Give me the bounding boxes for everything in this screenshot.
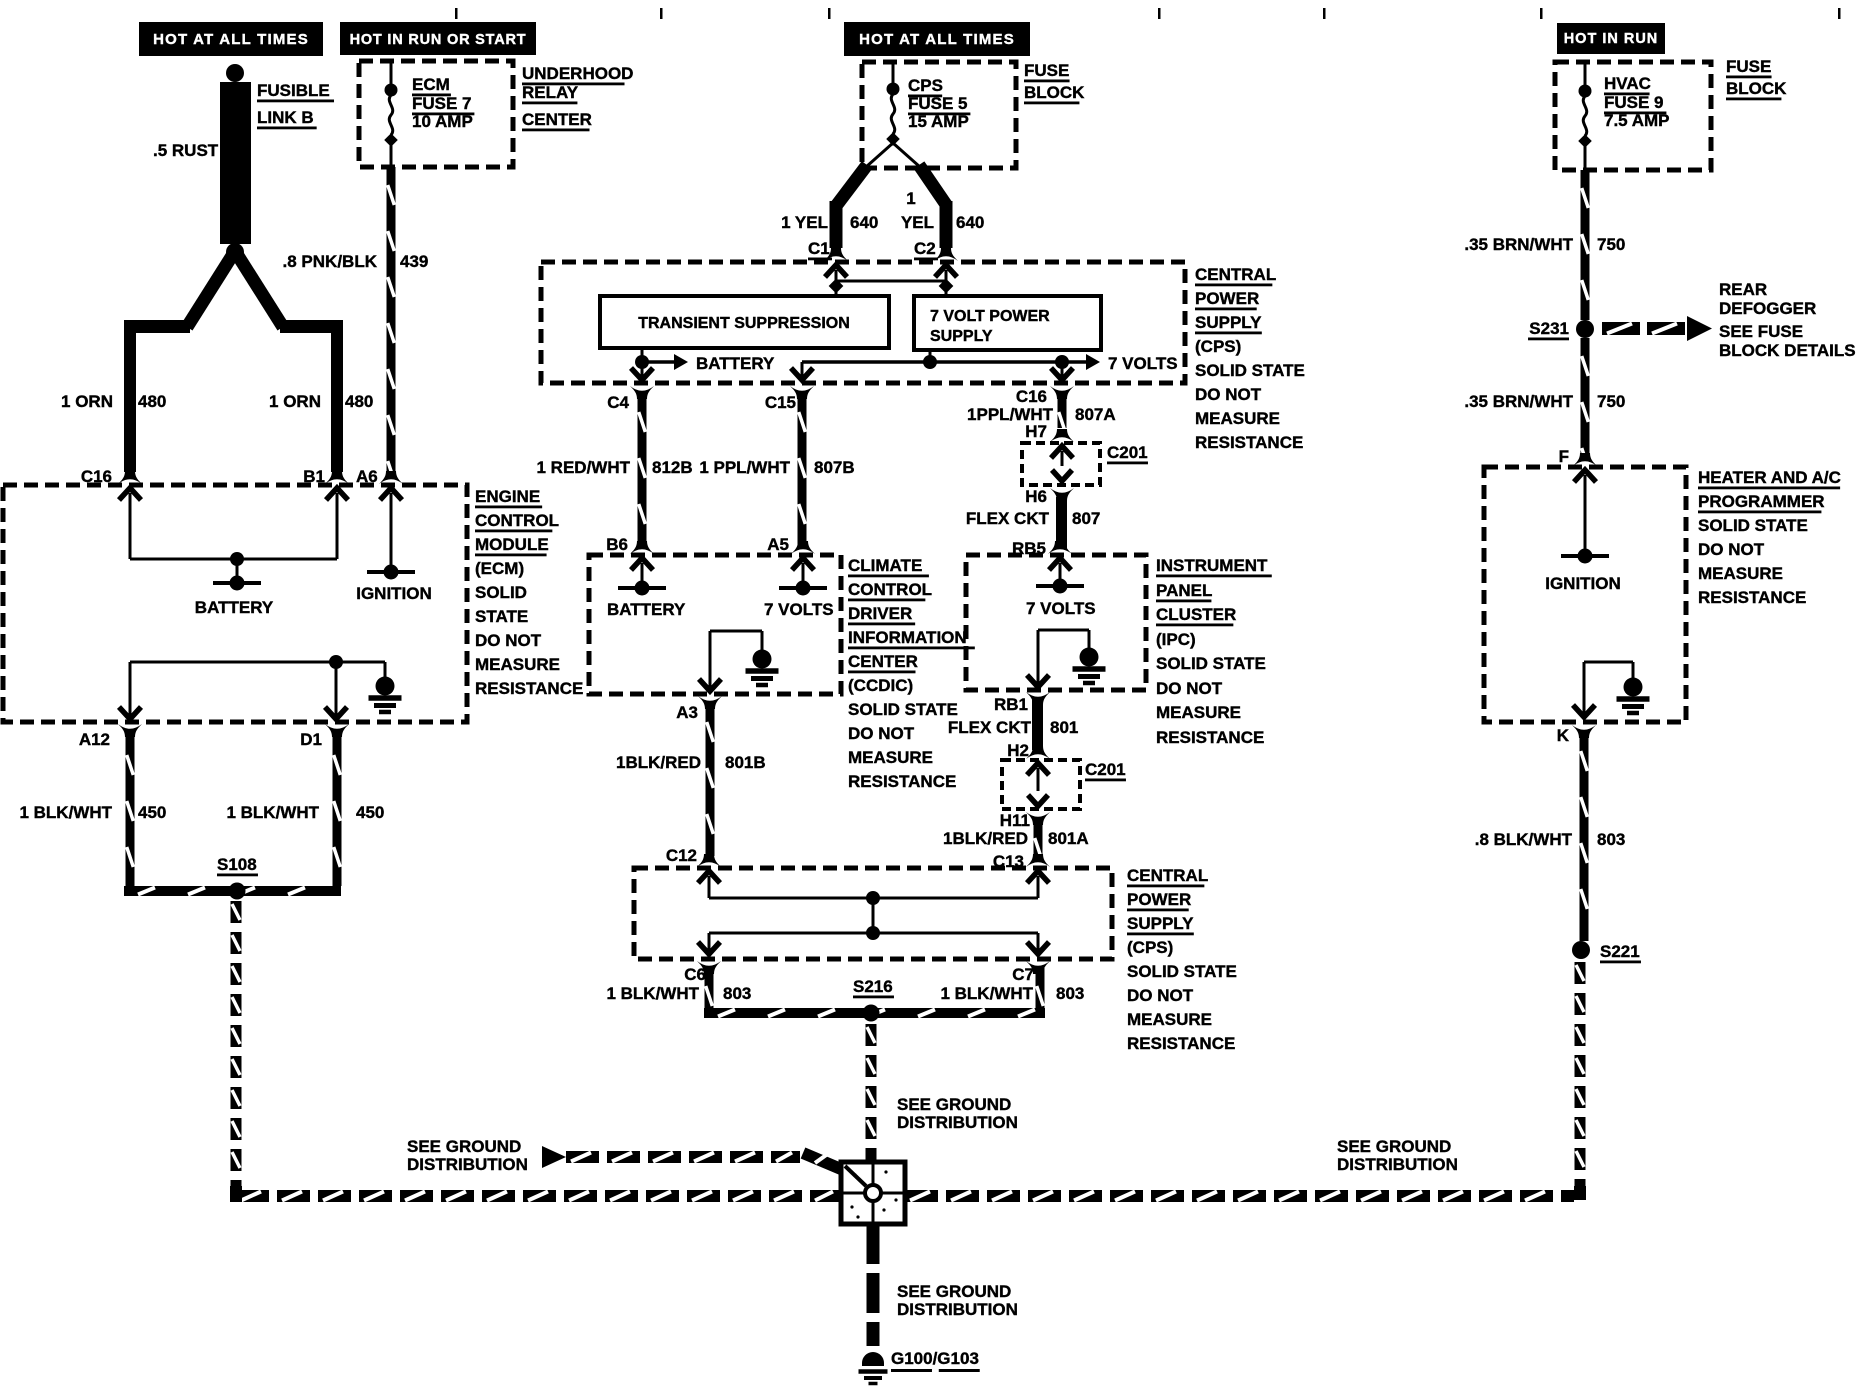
svg-text:FUSIBLE: FUSIBLE <box>257 81 330 100</box>
svg-text:YEL: YEL <box>901 213 934 232</box>
svg-text:SOLID STATE: SOLID STATE <box>1195 361 1305 380</box>
svg-text:IGNITION: IGNITION <box>1545 574 1621 593</box>
svg-text:RESISTANCE: RESISTANCE <box>848 772 956 791</box>
svg-text:803: 803 <box>1597 830 1625 849</box>
svg-text:SEE GROUND: SEE GROUND <box>897 1095 1011 1114</box>
svg-text:DRIVER: DRIVER <box>848 604 912 623</box>
svg-text:450: 450 <box>356 803 384 822</box>
svg-text:S221: S221 <box>1600 942 1640 961</box>
dashed ground wire below S216 <box>866 1024 877 1046</box>
svg-text:1BLK/RED: 1BLK/RED <box>943 829 1028 848</box>
RB5 bell <box>1048 541 1072 554</box>
svg-text:RB1: RB1 <box>994 695 1028 714</box>
svg-text:807: 807 <box>1072 509 1100 528</box>
C12 C13 bells <box>697 854 721 867</box>
svg-text:SUPPLY: SUPPLY <box>930 328 993 345</box>
svg-text:807A: 807A <box>1075 405 1116 424</box>
svg-text:1 ORN: 1 ORN <box>61 392 113 411</box>
ECM box (engine control module) <box>3 485 467 722</box>
svg-text:SEE FUSE: SEE FUSE <box>1719 322 1803 341</box>
svg-text:FUSE: FUSE <box>1024 61 1069 80</box>
dashed ground wire below S221 <box>1575 962 1586 984</box>
instrument panel cluster box <box>966 555 1146 690</box>
svg-text:RESISTANCE: RESISTANCE <box>475 679 583 698</box>
svg-text:CLIMATE: CLIMATE <box>848 556 922 575</box>
svg-text:INSTRUMENT: INSTRUMENT <box>1156 556 1268 575</box>
svg-text:DO NOT: DO NOT <box>848 724 915 743</box>
svg-text:FUSE 7: FUSE 7 <box>412 94 472 113</box>
svg-text:C2: C2 <box>914 239 936 258</box>
svg-text:439: 439 <box>400 252 428 271</box>
svg-text:K: K <box>1557 726 1570 745</box>
svg-text:1BLK/RED: 1BLK/RED <box>616 753 701 772</box>
svg-text:480: 480 <box>138 392 166 411</box>
svg-text:SOLID STATE: SOLID STATE <box>1127 962 1237 981</box>
svg-text:C201: C201 <box>1107 443 1148 462</box>
wire: fusible link V branches (1 ORN 480 left / right) <box>187 251 235 327</box>
svg-text:1 PPL/WHT: 1 PPL/WHT <box>699 458 790 477</box>
svg-text:B6: B6 <box>606 535 628 554</box>
svg-text:BATTERY: BATTERY <box>195 598 274 617</box>
label HOT AT ALL TIMES (left) <box>139 22 323 56</box>
svg-text:LINK B: LINK B <box>257 108 314 127</box>
ECM internal ground bus <box>130 661 336 664</box>
F pin <box>1573 453 1597 466</box>
7 volts bus inside CPS <box>929 350 932 362</box>
CCDIC internal ground <box>710 630 762 633</box>
svg-text:RESISTANCE: RESISTANCE <box>1195 433 1303 452</box>
svg-text:15 AMP: 15 AMP <box>908 112 969 131</box>
wire 1 PPL/WHT 807B <box>798 394 807 545</box>
svg-text:SOLID: SOLID <box>475 583 527 602</box>
svg-text:BATTERY: BATTERY <box>607 600 686 619</box>
wire .8 PNK/BLK 439 <box>387 167 396 474</box>
svg-text:750: 750 <box>1597 392 1625 411</box>
svg-text:(IPC): (IPC) <box>1156 630 1196 649</box>
svg-text:801A: 801A <box>1048 829 1089 848</box>
svg-text:7 VOLTS: 7 VOLTS <box>764 600 834 619</box>
svg-text:POWER: POWER <box>1127 890 1191 909</box>
wire FLEX CKT 801 <box>1032 700 1043 750</box>
svg-text:DO NOT: DO NOT <box>1195 385 1262 404</box>
A12 / D1 connector bells <box>118 724 142 737</box>
dashed ground wire below S108 <box>231 901 242 923</box>
wire .35 BRN/WHT 750 (lower) <box>1581 338 1590 457</box>
svg-text:TRANSIENT SUPPRESSION: TRANSIENT SUPPRESSION <box>638 315 850 332</box>
svg-text:750: 750 <box>1597 235 1625 254</box>
svg-text:812B: 812B <box>652 458 693 477</box>
lower horizontal dashed run (right of box) <box>905 1190 938 1202</box>
svg-text:DO NOT: DO NOT <box>1156 679 1223 698</box>
ECM internal ignition terminal <box>390 513 393 571</box>
svg-text:A5: A5 <box>767 535 789 554</box>
svg-text:450: 450 <box>138 803 166 822</box>
svg-text:H6: H6 <box>1025 487 1047 506</box>
splice S221 <box>1572 941 1590 959</box>
svg-text:C16: C16 <box>1016 387 1047 406</box>
central power supply (top) box <box>541 262 1185 383</box>
wire 1 RED/WHT 812B <box>638 394 647 545</box>
svg-text:BLOCK DETAILS: BLOCK DETAILS <box>1719 341 1856 360</box>
svg-text:DO NOT: DO NOT <box>1127 986 1194 1005</box>
connector C201 (lower) <box>1026 746 1050 759</box>
fusible link B <box>226 64 244 82</box>
svg-text:H11: H11 <box>1000 811 1030 830</box>
arrow + upper-left dashed run <box>542 1146 566 1168</box>
svg-text:.5 RUST: .5 RUST <box>153 141 219 160</box>
svg-text:C15: C15 <box>765 393 796 412</box>
CPS fuse 5 box (fuse block) <box>862 62 1016 168</box>
label HOT IN RUN <box>1557 23 1665 54</box>
svg-text:801B: 801B <box>725 753 766 772</box>
svg-text:INFORMATION: INFORMATION <box>848 628 967 647</box>
svg-text:C12: C12 <box>666 846 697 865</box>
svg-text:ECM: ECM <box>412 75 450 94</box>
ECM connector bells C16 B1 A6 <box>118 471 142 484</box>
svg-text:MEASURE: MEASURE <box>1127 1010 1212 1029</box>
svg-text:.35 BRN/WHT: .35 BRN/WHT <box>1464 235 1573 254</box>
wire .8 BLK/WHT 803 <box>1580 733 1589 941</box>
svg-text:1 BLK/WHT: 1 BLK/WHT <box>606 984 699 1003</box>
svg-text:CENTER: CENTER <box>522 110 592 129</box>
svg-text:CLUSTER: CLUSTER <box>1156 605 1236 624</box>
svg-text:1 ORN: 1 ORN <box>269 392 321 411</box>
ECM internal battery terminal <box>129 513 132 559</box>
connector C201 (upper) <box>1050 429 1074 442</box>
svg-text:MEASURE: MEASURE <box>475 655 560 674</box>
svg-text:803: 803 <box>723 984 751 1003</box>
svg-text:.8 BLK/WHT: .8 BLK/WHT <box>1475 830 1573 849</box>
central power supply (bottom) box <box>634 868 1112 959</box>
svg-text:S216: S216 <box>853 977 893 996</box>
svg-text:RESISTANCE: RESISTANCE <box>1127 1034 1235 1053</box>
wire 1BLK/RED 801A <box>1034 820 1043 856</box>
svg-text:S108: S108 <box>217 855 257 874</box>
svg-text:A12: A12 <box>79 730 110 749</box>
svg-text:FUSE: FUSE <box>1726 57 1771 76</box>
svg-text:CPS: CPS <box>908 76 943 95</box>
svg-text:C4: C4 <box>607 393 629 412</box>
wires 1 YEL 640 from fuse to C1 C2 <box>866 143 893 167</box>
svg-text:BLOCK: BLOCK <box>1726 79 1787 98</box>
svg-text:BLOCK: BLOCK <box>1024 83 1085 102</box>
svg-text:HEATER AND A/C: HEATER AND A/C <box>1698 468 1841 487</box>
svg-text:(CPS): (CPS) <box>1195 337 1241 356</box>
svg-text:FLEX CKT: FLEX CKT <box>948 718 1032 737</box>
dashed arrow to rear defogger <box>1602 322 1640 335</box>
svg-text:.35 BRN/WHT: .35 BRN/WHT <box>1464 392 1573 411</box>
svg-text:SOLID STATE: SOLID STATE <box>1698 516 1808 535</box>
svg-text:MEASURE: MEASURE <box>848 748 933 767</box>
svg-text:FUSE 5: FUSE 5 <box>908 94 968 113</box>
black dashed wire to G100/G103 <box>867 1224 880 1346</box>
IPC internal ground <box>1038 629 1089 632</box>
svg-text:DO NOT: DO NOT <box>1698 540 1765 559</box>
svg-text:FLEX CKT: FLEX CKT <box>966 509 1050 528</box>
svg-text:640: 640 <box>850 213 878 232</box>
svg-text:SEE GROUND: SEE GROUND <box>407 1137 521 1156</box>
wire 1 PPL/WHT 807A <box>1058 394 1067 428</box>
svg-text:HVAC: HVAC <box>1604 74 1651 93</box>
label HOT AT ALL TIMES (center) <box>844 22 1030 56</box>
svg-text:CONTROL: CONTROL <box>848 580 932 599</box>
svg-text:DEFOGGER: DEFOGGER <box>1719 299 1816 318</box>
svg-text:S231: S231 <box>1529 319 1569 338</box>
svg-text:H2: H2 <box>1007 741 1029 760</box>
transient suppression block <box>600 296 889 348</box>
svg-text:F: F <box>1559 447 1569 466</box>
splice junction box S-box <box>841 1162 905 1224</box>
wire .35 BRN/WHT 750 (upper) <box>1581 170 1590 320</box>
svg-text:RELAY: RELAY <box>522 83 579 102</box>
svg-text:(ECM): (ECM) <box>475 559 524 578</box>
svg-text:SOLID STATE: SOLID STATE <box>848 700 958 719</box>
svg-text:HOT IN RUN: HOT IN RUN <box>1564 31 1659 47</box>
svg-text:HOT AT ALL TIMES: HOT AT ALL TIMES <box>859 31 1015 48</box>
svg-text:MEASURE: MEASURE <box>1698 564 1783 583</box>
svg-text:801: 801 <box>1050 718 1078 737</box>
svg-text:DISTRIBUTION: DISTRIBUTION <box>897 1300 1018 1319</box>
svg-text:SUPPLY: SUPPLY <box>1195 313 1262 332</box>
svg-text:RESISTANCE: RESISTANCE <box>1698 588 1806 607</box>
C4 C15 C16 pins on CPS bottom edge <box>631 363 653 380</box>
label HOT IN RUN OR START <box>340 22 536 55</box>
svg-text:PANEL: PANEL <box>1156 581 1212 600</box>
svg-text:7 VOLT POWER: 7 VOLT POWER <box>930 308 1050 325</box>
svg-text:POWER: POWER <box>1195 289 1259 308</box>
svg-text:H7: H7 <box>1025 422 1047 441</box>
svg-text:CENTRAL: CENTRAL <box>1127 866 1208 885</box>
svg-text:1 BLK/WHT: 1 BLK/WHT <box>19 803 112 822</box>
svg-text:(CPS): (CPS) <box>1127 938 1173 957</box>
svg-text:7.5 AMP: 7.5 AMP <box>1604 111 1670 130</box>
svg-text:SOLID STATE: SOLID STATE <box>1156 654 1266 673</box>
heater internal ground <box>1584 661 1633 664</box>
svg-text:7 VOLTS: 7 VOLTS <box>1108 354 1178 373</box>
svg-text:640: 640 <box>956 213 984 232</box>
svg-text:10 AMP: 10 AMP <box>412 112 473 131</box>
svg-text:D1: D1 <box>300 730 322 749</box>
svg-text:MODULE: MODULE <box>475 535 549 554</box>
svg-text:IGNITION: IGNITION <box>356 584 432 603</box>
svg-text:SEE GROUND: SEE GROUND <box>897 1282 1011 1301</box>
svg-text:DISTRIBUTION: DISTRIBUTION <box>897 1113 1018 1132</box>
svg-text:DISTRIBUTION: DISTRIBUTION <box>407 1155 528 1174</box>
svg-text:PROGRAMMER: PROGRAMMER <box>1698 492 1825 511</box>
svg-text:1: 1 <box>906 189 915 208</box>
svg-text:DO NOT: DO NOT <box>475 631 542 650</box>
svg-text:807B: 807B <box>814 458 855 477</box>
svg-text:7 VOLTS: 7 VOLTS <box>1026 599 1096 618</box>
battery tap inside CPS <box>641 348 644 379</box>
svg-text:RESISTANCE: RESISTANCE <box>1156 728 1264 747</box>
lower horizontal dashed run (left of box) <box>236 1190 269 1202</box>
svg-text:MEASURE: MEASURE <box>1195 409 1280 428</box>
svg-text:REAR: REAR <box>1719 280 1767 299</box>
heater and A/C programmer box <box>1484 467 1686 722</box>
ground G100/G103 <box>859 1352 888 1384</box>
B6 A5 bells <box>630 541 654 554</box>
wire FLEX CKT 807 <box>1056 497 1067 549</box>
page tick marks <box>455 8 458 19</box>
splice S231 <box>1576 320 1594 338</box>
svg-text:1 RED/WHT: 1 RED/WHT <box>537 458 631 477</box>
svg-text:SUPPLY: SUPPLY <box>1127 914 1194 933</box>
svg-text:480: 480 <box>345 392 373 411</box>
svg-text:C6: C6 <box>684 965 706 984</box>
svg-text:C7: C7 <box>1012 965 1034 984</box>
svg-text:.8 PNK/BLK: .8 PNK/BLK <box>283 252 378 271</box>
svg-text:1 BLK/WHT: 1 BLK/WHT <box>226 803 319 822</box>
svg-text:C1: C1 <box>808 239 830 258</box>
svg-text:803: 803 <box>1056 984 1084 1003</box>
svg-text:CENTRAL: CENTRAL <box>1195 265 1276 284</box>
svg-text:SEE GROUND: SEE GROUND <box>1337 1137 1451 1156</box>
svg-text:HOT IN RUN OR START: HOT IN RUN OR START <box>350 32 527 48</box>
svg-text:(CCDIC): (CCDIC) <box>848 676 913 695</box>
svg-text:ENGINE: ENGINE <box>475 487 540 506</box>
svg-text:DISTRIBUTION: DISTRIBUTION <box>1337 1155 1458 1174</box>
svg-text:STATE: STATE <box>475 607 528 626</box>
corner at S108 drop <box>230 1186 242 1202</box>
ECM fuse 7 box (underhood relay center) <box>359 61 513 167</box>
svg-text:UNDERHOOD: UNDERHOOD <box>522 64 633 83</box>
svg-text:FUSE 9: FUSE 9 <box>1604 93 1664 112</box>
svg-text:A3: A3 <box>676 703 698 722</box>
svg-text:BATTERY: BATTERY <box>696 354 775 373</box>
wire 1BLK/RED 801B <box>706 704 715 856</box>
svg-text:MEASURE: MEASURE <box>1156 703 1241 722</box>
svg-text:1 BLK/WHT: 1 BLK/WHT <box>940 984 1033 1003</box>
wires 1 BLK/WHT 450 down to S108 <box>126 737 135 886</box>
7 volt power supply block <box>914 296 1101 350</box>
svg-text:C201: C201 <box>1085 760 1126 779</box>
S216 splice bus <box>705 968 714 1016</box>
svg-text:1 YEL: 1 YEL <box>781 213 828 232</box>
svg-text:CENTER: CENTER <box>848 652 918 671</box>
ECM internal ground symbol <box>369 677 402 713</box>
svg-text:CONTROL: CONTROL <box>475 511 559 530</box>
HVAC fuse 9 box (fuse block) <box>1555 62 1711 170</box>
svg-text:HOT AT ALL TIMES: HOT AT ALL TIMES <box>153 31 309 48</box>
svg-text:G100/G103: G100/G103 <box>891 1349 979 1368</box>
climate control driver information center box <box>589 555 841 694</box>
